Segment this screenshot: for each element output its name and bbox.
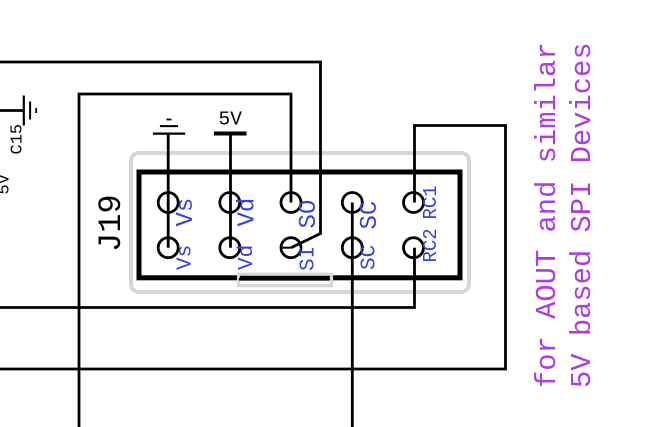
svg-text:Vd: Vd [235,198,262,227]
svg-text:5V: 5V [0,173,15,194]
wire 5V to Vd [229,134,232,248]
pin 2 VS bottom [158,238,178,258]
svg-text:RC1: RC1 [420,185,442,219]
pin 7 SC top [342,193,362,213]
pin 10 RC2 [404,238,424,258]
pin 8 SC bottom [342,238,362,258]
svg-text:SI: SI [297,246,320,271]
svg-text:Vd: Vd [236,245,259,270]
notch keyway line [239,278,330,281]
svg-text:SC: SC [357,201,384,230]
pin 5 SO [281,193,301,213]
svg-text:J19: J19 [93,194,130,252]
svg-text:for AOUT and similar: for AOUT and similar [531,42,564,388]
wire RC2 bottom [0,248,415,308]
svg-text:Vs: Vs [173,198,200,227]
connector J19 gray outline [131,153,469,292]
svg-text:RC2: RC2 [420,228,442,262]
wire RC1 loop right [0,126,506,370]
pin 1 VS top [158,193,178,213]
svg-text:5V based SPI Devices: 5V based SPI Devices [566,42,599,388]
svg-text:Vs: Vs [175,245,198,270]
svg-text:5V: 5V [219,109,243,131]
pin 9 RC1 [404,193,424,213]
ground left edge [0,109,24,112]
wire SI stub [281,247,291,249]
wire net top (to SI) [0,62,321,248]
ground above pin VS (inverted) [167,133,170,248]
pin 6 SI [281,238,301,258]
connector J19 body box [139,172,460,278]
wire SC down [351,203,354,427]
svg-text:SC: SC [359,245,382,270]
pin 3 Vd top [220,193,240,213]
pin 4 Vd bottom [220,238,240,258]
wire net SO / RC2 loop [79,94,291,427]
connector polarization notch [239,274,332,286]
svg-text:SO: SO [296,200,323,229]
svg-text:C15: C15 [9,124,28,155]
